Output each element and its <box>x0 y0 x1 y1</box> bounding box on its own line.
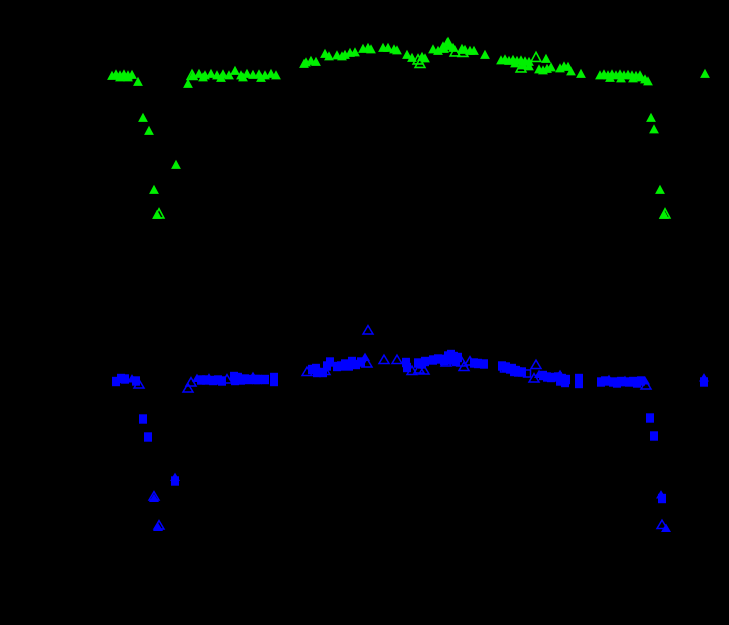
blue cluster A (band x112-143) <box>112 374 144 388</box>
green isolated triangle x581 <box>576 69 586 78</box>
green filled triangle cluster B (band x192-279) <box>188 66 281 82</box>
blue row x335-358 <box>333 357 360 371</box>
green cluster x499-531 <box>496 54 534 72</box>
blue cluster x360-371 <box>357 353 372 367</box>
green open triangle and low filled triangle at left of cluster B <box>183 70 197 88</box>
green isolated triangle x485 <box>480 50 490 59</box>
green arc rising section x303-358 <box>299 47 360 68</box>
blue cluster x244-266 <box>241 372 269 385</box>
green arc top section x360-401 <box>358 43 402 55</box>
green cluster x556-572 <box>555 61 576 75</box>
green peak cluster x441-460 <box>438 38 460 56</box>
blue isolated square pair x274 <box>270 373 278 386</box>
green isolated triangle far right x705 <box>700 69 710 78</box>
blue left descending branch <box>139 414 180 531</box>
green left descending branch <box>138 113 181 219</box>
blue cluster B (band x184-231) <box>183 374 232 392</box>
blue squares x406 with open triangle <box>402 358 417 375</box>
green cluster x537-556 <box>534 54 556 75</box>
blue cluster x303-332 <box>302 357 334 377</box>
green filled triangle cluster A (upper-left band x109-143) <box>107 69 143 86</box>
blue square x484 <box>480 359 488 368</box>
blue lone open triangle above band <box>363 326 373 334</box>
blue cluster x530-554 <box>529 370 555 383</box>
blue cluster x556-568 <box>554 370 570 388</box>
blue long right cluster x598-650 <box>597 376 651 389</box>
blue cluster x429-447 <box>429 354 451 366</box>
blue cluster x467-480 <box>465 357 482 369</box>
blue open triangle above band x536 <box>531 360 541 368</box>
blue cluster x415-428 <box>414 357 429 374</box>
green right descending branch <box>646 113 670 219</box>
blue right descending branch <box>646 413 671 532</box>
blue pair x519-530 <box>518 367 531 377</box>
blue peak cluster x447-467 <box>440 350 469 371</box>
blue tall cluster x232-243 <box>230 372 245 385</box>
green pair x430-440 <box>428 44 443 55</box>
blue isolated pair far right x699-709 <box>699 373 709 387</box>
green cluster x459-477 <box>457 44 479 57</box>
blue open triangle pair x384,x397 <box>379 355 402 363</box>
green long right cluster x598-652 <box>595 69 653 85</box>
green open triangle x536 <box>531 52 541 61</box>
green lower cluster x403-427 with open triangles <box>402 50 430 68</box>
blue stacked pair x575-583 <box>575 374 583 388</box>
blue cluster x499-519 <box>498 361 522 376</box>
